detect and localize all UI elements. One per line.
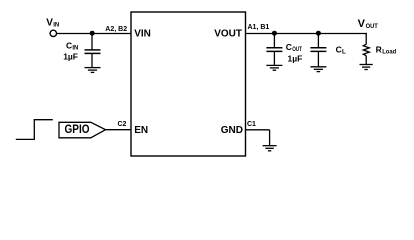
svg-text:C1: C1 <box>247 121 256 128</box>
wire VIN terminal to pin VIN <box>56 33 131 35</box>
svg-text:VOUT: VOUT <box>214 29 242 40</box>
node junction CL <box>316 31 321 36</box>
ground below C_L <box>310 67 326 72</box>
ground below pin GND <box>263 146 277 151</box>
waveform step input <box>16 120 53 140</box>
capacitor C_IN <box>85 50 101 67</box>
svg-text:A1, B1: A1, B1 <box>248 24 270 31</box>
svg-text:Load: Load <box>382 50 396 56</box>
svg-text:VIN: VIN <box>134 29 151 40</box>
svg-text:IN: IN <box>53 23 59 29</box>
node VOUT label <box>358 18 378 30</box>
svg-text:A2, B2: A2, B2 <box>105 26 127 33</box>
wire junction to CL <box>317 34 319 48</box>
svg-text:R: R <box>376 45 382 55</box>
wire corner to RLoad <box>365 33 367 45</box>
ground below C_OUT <box>266 65 282 70</box>
capacitor C_L label <box>336 45 346 56</box>
capacitor C_L <box>310 48 326 67</box>
svg-text:GPIO: GPIO <box>65 124 90 136</box>
node GPIO tag <box>59 122 106 138</box>
op-amp U1 (regulator IC body) <box>131 12 246 156</box>
svg-text:C2: C2 <box>118 121 127 128</box>
resistor R_Load label <box>376 45 397 56</box>
svg-text:C: C <box>286 42 292 52</box>
node VIN terminal <box>50 30 56 36</box>
svg-text:L: L <box>342 50 346 56</box>
svg-text:OUT: OUT <box>366 23 378 30</box>
wire junction to CIN <box>91 34 93 50</box>
svg-text:OUT: OUT <box>292 47 302 53</box>
svg-text:IN: IN <box>72 45 78 51</box>
ground below R_Load <box>360 65 373 70</box>
svg-text:EN: EN <box>134 125 148 136</box>
resistor R_Load <box>363 44 369 64</box>
capacitor C_IN value label <box>63 40 78 61</box>
node VIN label <box>46 17 59 28</box>
capacitor C_OUT value label <box>286 42 303 63</box>
capacitor C_OUT <box>266 48 282 65</box>
svg-text:C: C <box>66 40 72 50</box>
svg-text:1µF: 1µF <box>63 52 78 62</box>
wire pin GND to ground <box>246 130 270 145</box>
wire junction to COUT <box>273 34 275 48</box>
node junction COUT <box>272 31 277 36</box>
svg-text:C: C <box>336 45 342 55</box>
svg-text:1µF: 1µF <box>288 53 303 63</box>
svg-text:V: V <box>358 18 366 30</box>
ground below C_IN <box>85 68 101 73</box>
wire GPIO to pin EN <box>106 129 132 131</box>
wire pin VOUT to RLoad corner <box>246 33 367 35</box>
node junction CIN <box>90 31 95 36</box>
svg-text:GND: GND <box>221 125 243 136</box>
